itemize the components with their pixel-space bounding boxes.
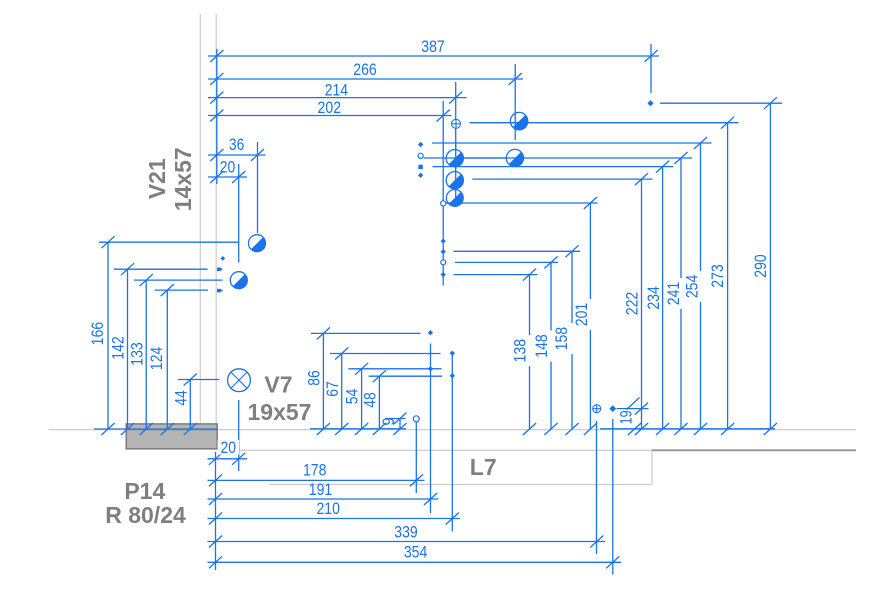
svg-text:148: 148 [532, 334, 551, 358]
dim 124 line [166, 290, 168, 429]
dim 178 line [208, 479, 425, 481]
dim 158 text [556, 323, 573, 354]
socket symbol B [446, 150, 463, 167]
extension line at 214 right [455, 82, 457, 207]
dim 142 line [127, 269, 129, 429]
drop line mid c [451, 353, 453, 531]
device dot r4 [441, 272, 446, 277]
svg-text:V21: V21 [144, 158, 170, 199]
leader at 234 level [433, 166, 674, 168]
wall line left (gray vertical) [199, 14, 201, 430]
dim 273 line [727, 123, 729, 429]
extension line at 36 right [257, 142, 259, 233]
device ring r3 [441, 260, 446, 265]
dim 133 line [145, 280, 147, 429]
dim 138 text [513, 335, 530, 366]
svg-text:266: 266 [353, 60, 377, 79]
device square s1 [418, 165, 422, 169]
dim 201 line [589, 203, 591, 429]
dim 290 line [769, 103, 771, 429]
dim 202 line [208, 115, 452, 117]
window sill right (dark gray horizontal) [652, 449, 856, 451]
svg-text:273: 273 [708, 264, 727, 288]
dim 254 line [700, 143, 702, 429]
leader at 19 level [617, 408, 649, 410]
dim 387 line [208, 55, 659, 57]
sill line left (gray horizontal) [217, 449, 652, 451]
dim 210 line [208, 518, 461, 520]
device dot bottom [609, 405, 616, 412]
drop line below lamp [238, 400, 240, 471]
svg-text:19x57: 19x57 [248, 399, 312, 425]
svg-text:54: 54 [342, 389, 361, 405]
leader at 124 level [155, 289, 209, 291]
beam P14 (gray rectangle) [126, 424, 217, 449]
drop line mid b [430, 344, 432, 514]
lower room line (gray horizontal) [269, 484, 652, 486]
dim 201 text [574, 299, 591, 330]
dot at 48 level [450, 373, 455, 378]
dim 241 line [680, 158, 682, 429]
dim 241 text [665, 278, 682, 309]
dim 148 text [535, 331, 552, 362]
switch symbol top [452, 119, 461, 128]
drop line from switch [596, 421, 598, 554]
dot at 86 level [428, 330, 433, 335]
device diamond s3 [418, 142, 423, 147]
svg-text:48: 48 [361, 392, 380, 408]
leader at 241 level [424, 157, 693, 159]
svg-text:20: 20 [221, 438, 237, 457]
extension line at 387 right [650, 44, 652, 93]
svg-text:14x57: 14x57 [170, 147, 196, 211]
ring at 201 level [441, 201, 446, 206]
svg-text:P14: P14 [124, 478, 165, 504]
leader overdraw through socket E [446, 202, 463, 204]
svg-text:241: 241 [664, 282, 683, 306]
floor line (gray horizontal) [49, 429, 856, 431]
socket symbol A1 [249, 235, 266, 252]
junction dot left [220, 256, 225, 261]
extension overdraw through sockets B D E [455, 141, 457, 207]
left chain baseline [94, 428, 217, 430]
svg-text:158: 158 [552, 327, 571, 351]
right chain baseline [600, 428, 775, 430]
beam interior edge [127, 429, 217, 431]
device dot r2 [441, 249, 446, 254]
svg-text:20: 20 [220, 157, 236, 176]
svg-text:339: 339 [394, 523, 418, 542]
dim 20 bottom line [208, 458, 248, 460]
leader at 158 level [454, 250, 581, 252]
svg-text:138: 138 [511, 339, 530, 363]
device dot r1 [441, 238, 446, 243]
switch symbol bottom [593, 405, 601, 413]
svg-text:142: 142 [108, 336, 127, 360]
leader overdraw through sockets B C [446, 157, 523, 159]
socket symbol A [510, 112, 527, 129]
extension line at 20 right [238, 164, 240, 263]
dim 36 line [208, 154, 266, 156]
dim 86 line [322, 333, 324, 429]
dim 138 line [529, 275, 531, 429]
leader at 142 level [114, 268, 208, 270]
svg-text:19: 19 [617, 410, 636, 424]
leader at 166 level [99, 241, 239, 243]
socket symbol A2 [230, 272, 247, 289]
extension line top-left [216, 49, 218, 184]
dim 9 line [399, 419, 401, 430]
dim 54 line [361, 369, 363, 429]
drop line mid a [415, 422, 417, 493]
dim 222 line [641, 179, 643, 429]
svg-text:210: 210 [316, 499, 340, 518]
dim 67 line [341, 354, 343, 430]
leader at 222 level [472, 178, 652, 180]
svg-text:R 80/24: R 80/24 [105, 502, 186, 528]
extension line bottom-left [215, 452, 217, 570]
svg-text:191: 191 [309, 480, 333, 499]
svg-text:67: 67 [323, 381, 342, 397]
device dot top right [647, 100, 653, 106]
svg-text:214: 214 [325, 80, 349, 99]
leader at 67 level [330, 353, 441, 355]
dim 20 bottom text [218, 440, 240, 455]
leader at 86 level [311, 332, 421, 334]
leader at 54 level [348, 368, 441, 370]
leader at 273 level [470, 122, 739, 124]
room step (gray vertical) [651, 450, 653, 484]
extension line at 266 right [514, 64, 516, 140]
svg-text:354: 354 [404, 543, 428, 562]
svg-text:36: 36 [229, 135, 245, 154]
leader at 148 level [455, 261, 558, 263]
svg-text:222: 222 [623, 292, 642, 316]
svg-text:387: 387 [421, 37, 445, 56]
svg-text:178: 178 [303, 460, 327, 479]
svg-text:201: 201 [572, 303, 591, 327]
svg-text:124: 124 [147, 347, 166, 371]
mid chain baseline [310, 428, 406, 430]
svg-text:V7: V7 [264, 371, 292, 397]
flag symbol 1 [217, 268, 221, 272]
svg-text:290: 290 [751, 254, 770, 278]
dim 48 line [378, 376, 380, 429]
flag symbol 2 [217, 289, 221, 293]
leader at 48 level [369, 375, 442, 377]
dim 158 line [571, 251, 573, 429]
svg-text:L7: L7 [470, 454, 497, 480]
dim 339 line [208, 541, 606, 543]
extension line at 202 right [442, 101, 444, 286]
svg-text:166: 166 [88, 322, 107, 346]
leader at 254 level [432, 142, 712, 144]
drop line from dot [612, 419, 614, 575]
device ring s2 [418, 153, 423, 158]
svg-text:86: 86 [305, 370, 324, 386]
ring at 9 level [413, 416, 419, 422]
dim 354 line [208, 561, 622, 563]
leader at 138 level [454, 274, 538, 276]
leader at 290 level [660, 102, 782, 104]
socket symbol D [446, 172, 463, 189]
svg-text:133: 133 [127, 342, 146, 366]
dot at 54 level [428, 366, 433, 371]
svg-text:44: 44 [171, 390, 190, 406]
dim 20 top line [208, 176, 247, 178]
dot at 67 level [450, 351, 455, 356]
leader at 44 level [178, 379, 219, 381]
dim 44 line [189, 380, 191, 430]
lamp symbol V7 [228, 369, 251, 392]
svg-text:234: 234 [644, 286, 663, 310]
device diamond s4 [418, 173, 423, 178]
leader overdraw through socket A [510, 122, 527, 124]
socket symbol C [506, 149, 523, 166]
socket symbol E [446, 190, 463, 207]
dim 234 line [662, 167, 664, 429]
dim 148 line [550, 262, 552, 429]
dim 254 text [684, 271, 701, 302]
wall line right (gray vertical) [215, 14, 217, 430]
svg-text:254: 254 [682, 275, 701, 299]
dim 266 line [208, 78, 523, 80]
svg-text:202: 202 [318, 98, 342, 117]
leader at 201 level [446, 202, 598, 204]
extension overdraw through socket A [514, 112, 516, 130]
dim 191 line [208, 498, 439, 500]
dim 214 line [208, 97, 467, 99]
leader at 9 level [385, 418, 406, 420]
dim 166 line [107, 242, 109, 429]
leader at 133 level [134, 279, 223, 281]
